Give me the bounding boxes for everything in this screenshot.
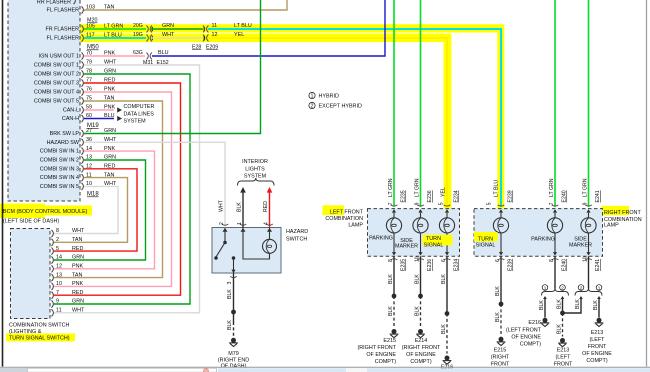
svg-text:WHT: WHT [219, 199, 225, 212]
svg-text:1: 1 [237, 222, 243, 225]
svg-text:COMBI SW IN 2: COMBI SW IN 2 [40, 158, 79, 164]
svg-text:INTERIOR: INTERIOR [242, 159, 268, 165]
hazard switch pin 1 [240, 224, 247, 225]
svg-text:(LEFT FRONT: (LEFT FRONT [506, 328, 542, 334]
svg-text:LT GRN: LT GRN [583, 178, 589, 197]
svg-text:GRN: GRN [162, 23, 174, 29]
svg-text:COMBI SW IN 1: COMBI SW IN 1 [40, 149, 79, 155]
bottom logo dot [204, 368, 209, 372]
wire BLK branch 1 side marker to ground E213 [597, 296, 601, 299]
combination switch pin 10 PNK [52, 283, 54, 290]
svg-text:OF ENGINE: OF ENGINE [366, 352, 396, 358]
highlight FR FLASHER / LT BLU wire row [80, 24, 504, 32]
hazard switch pin 4 [266, 224, 273, 225]
svg-text:7: 7 [56, 290, 59, 296]
highlight LT BLU turn signal vertical wire [497, 33, 504, 209]
svg-text:LAMP: LAMP [348, 222, 363, 228]
connector 63G / M31 / E152 [147, 53, 149, 60]
wire WHT HAZARD SW to hazard switch pin 2 [84, 142, 225, 227]
wire BLK left turn signal to ground E216 [446, 256, 448, 313]
svg-text:2: 2 [56, 237, 59, 243]
svg-text:COMBI SW OUT 4: COMBI SW OUT 4 [34, 90, 79, 96]
combination switch pin 5 RED [52, 248, 54, 255]
combination switch pin 9 GRN [52, 300, 54, 307]
svg-text:TURN: TURN [426, 236, 441, 242]
bottom left gray corner [0, 368, 27, 372]
svg-text:13: 13 [56, 272, 62, 278]
svg-text:IGN USM OUT 1: IGN USM OUT 1 [39, 54, 79, 60]
svg-text:BLK: BLK [593, 300, 599, 310]
svg-text:BLK: BLK [237, 202, 243, 212]
svg-text:RED: RED [72, 290, 83, 296]
combination switch pin 11 WHT [52, 309, 54, 316]
left page border [2, 0, 4, 367]
svg-text:LT GRN: LT GRN [415, 178, 421, 197]
svg-text:COMBI SW OUT 2: COMBI SW OUT 2 [34, 72, 79, 78]
svg-text:COMPT): COMPT) [410, 359, 431, 365]
svg-text:E215: E215 [494, 348, 507, 354]
combination switch pin 14 GRN [52, 256, 54, 263]
svg-text:63G: 63G [133, 50, 143, 56]
hazard switch contact [224, 228, 226, 242]
svg-text:HAZARD SW: HAZARD SW [47, 140, 80, 146]
combination switch pin 7 RED [52, 292, 54, 299]
svg-text:OF ENGINE: OF ENGINE [511, 335, 541, 341]
svg-text:SWITCH: SWITCH [286, 237, 307, 243]
svg-text:BLK: BLK [441, 324, 447, 334]
wire GRN 13 to comb sw 14 [54, 160, 146, 260]
svg-text:9: 9 [56, 299, 59, 305]
svg-text:PNK: PNK [72, 281, 83, 287]
svg-text:5: 5 [439, 202, 445, 205]
svg-text:E235: E235 [401, 259, 407, 271]
svg-text:1: 1 [311, 93, 314, 99]
wire BLK left parking to ground E215 [393, 256, 395, 296]
wire TAN FL FLASHER pin 103 [84, 0, 287, 10]
svg-text:3: 3 [227, 282, 233, 285]
svg-text:E241: E241 [595, 259, 601, 271]
viewport bottom border [0, 366, 650, 368]
svg-text:6: 6 [441, 259, 447, 262]
svg-text:E216: E216 [528, 320, 541, 326]
svg-text:4: 4 [263, 222, 269, 225]
svg-text:COMBINATION SWITCH: COMBINATION SWITCH [9, 323, 69, 329]
svg-text:2: 2 [561, 285, 564, 290]
svg-text:BLK: BLK [415, 306, 421, 316]
svg-text:BLK: BLK [441, 274, 447, 284]
note circled 2 side marker [578, 285, 584, 291]
highlight TURN SIGNAL label left lamp [423, 235, 453, 246]
svg-text:BLK: BLK [388, 274, 394, 284]
wire RED 77 to comb sw 7 [54, 83, 181, 295]
wire PNK 76 to comb sw 10 [54, 92, 172, 286]
svg-text:E239: E239 [508, 190, 514, 202]
svg-text:HYBRID: HYBRID [319, 94, 339, 100]
wire BLU CAN-H with arrow [84, 118, 114, 120]
note 1 hybrid [309, 92, 315, 98]
svg-text:PARKING: PARKING [369, 236, 393, 242]
svg-text:COMPUTER: COMPUTER [124, 104, 155, 110]
svg-text:(LEFT SIDE OF DASH): (LEFT SIDE OF DASH) [3, 219, 59, 225]
svg-text:FR FLASHER: FR FLASHER [45, 27, 79, 33]
highlight RIGHT FRONT label [602, 206, 630, 215]
svg-text:(LEFT: (LEFT [556, 355, 572, 361]
svg-text:E240: E240 [562, 190, 568, 202]
svg-text:E240: E240 [562, 259, 568, 271]
ground M79 [231, 338, 236, 343]
svg-text:WHT: WHT [162, 32, 175, 38]
svg-text:GRN: GRN [72, 299, 84, 305]
svg-text:1: 1 [544, 285, 547, 290]
svg-text:MARKER: MARKER [395, 243, 418, 249]
bottom blue band 1 [218, 368, 650, 372]
svg-text:YEL: YEL [441, 187, 447, 197]
svg-text:EXCEPT HYBRID: EXCEPT HYBRID [319, 104, 362, 110]
connector E28/E209 brackets [203, 26, 205, 33]
svg-text:11: 11 [56, 308, 62, 314]
svg-text:BLK: BLK [557, 299, 563, 309]
svg-text:BCM (BODY CONTROL MODULE): BCM (BODY CONTROL MODULE) [3, 209, 88, 215]
combination switch pin 8 WHT [52, 230, 54, 237]
svg-text:COMBI SW OUT 1: COMBI SW OUT 1 [34, 63, 79, 69]
bottom white panel [28, 368, 217, 372]
svg-text:2: 2 [580, 285, 583, 290]
svg-text:COMPT): COMPT) [375, 359, 396, 365]
connector 19G [147, 35, 149, 42]
svg-text:19G: 19G [133, 32, 143, 38]
wire BLK branch 1 to ground E216 [543, 296, 547, 299]
combination switch box [11, 229, 51, 319]
svg-text:E28: E28 [192, 44, 201, 50]
svg-text:BLK: BLK [415, 274, 421, 284]
svg-text:FRONT: FRONT [554, 362, 573, 368]
svg-text:12: 12 [56, 264, 62, 270]
svg-text:LT GRN: LT GRN [549, 178, 555, 197]
svg-text:BLK: BLK [227, 289, 233, 299]
note 2 except hybrid [309, 102, 315, 108]
svg-text:COMBINATION: COMBINATION [325, 216, 363, 222]
svg-text:WHT: WHT [72, 308, 85, 314]
svg-text:E215: E215 [383, 338, 396, 344]
svg-text:E234: E234 [454, 259, 460, 271]
svg-text:COMBI SW IN 5: COMBI SW IN 5 [40, 184, 79, 190]
svg-text:8: 8 [549, 259, 555, 262]
svg-text:BLK: BLK [495, 286, 501, 296]
wire LT BLU pin 11 to right lamp turn signal [208, 29, 501, 207]
svg-text:M19: M19 [87, 123, 99, 129]
svg-text:(LIGHTING &: (LIGHTING & [9, 329, 42, 335]
wire BLU from 63G up off page [152, 0, 385, 56]
svg-text:LEFT FRONT: LEFT FRONT [330, 210, 364, 216]
svg-text:SIGNAL: SIGNAL [476, 242, 496, 248]
wire GRN BRK SW LP up off page [84, 0, 261, 134]
hazard switch box [212, 228, 281, 274]
svg-text:6: 6 [495, 259, 501, 262]
svg-text:COMBI SW IN 4: COMBI SW IN 4 [40, 175, 79, 181]
svg-text:DATA LINES: DATA LINES [124, 111, 155, 117]
wire BLK hazard pin 1 to interior lights [240, 187, 246, 193]
combination switch pin 2 TAN [52, 239, 54, 246]
svg-text:8: 8 [388, 259, 394, 262]
svg-text:COMPT): COMPT) [520, 342, 541, 348]
svg-text:SYSTEM: SYSTEM [124, 119, 147, 125]
svg-text:E235: E235 [401, 190, 407, 202]
wire LT GRN to left lamp side marker [420, 0, 422, 207]
svg-text:2: 2 [311, 103, 314, 109]
wire RED 12 to comb sw 5 [54, 169, 137, 251]
wire right parking split [554, 256, 556, 289]
note circled 2 parking [560, 285, 566, 291]
svg-text:YEL: YEL [234, 32, 244, 38]
wire FR FLASHER LT GRN segment [84, 28, 146, 30]
right front combination lamp box [474, 209, 603, 257]
combination switch pin 13 TAN [52, 274, 54, 281]
svg-text:OF ENGINE: OF ENGINE [406, 352, 436, 358]
BCM (body control module) box [8, 0, 80, 201]
svg-text:BLK: BLK [539, 300, 545, 310]
interior lights brace [238, 178, 275, 186]
wire PNK CAN-L with arrow [84, 109, 114, 111]
left front combination lamp box [368, 209, 460, 257]
svg-text:FL FLASHER: FL FLASHER [47, 36, 80, 42]
wire TAN 11 to comb sw 2 [54, 178, 128, 243]
svg-text:E234: E234 [454, 190, 460, 202]
svg-text:E239: E239 [508, 259, 514, 271]
svg-text:HAZARD: HAZARD [286, 229, 308, 235]
svg-text:E209: E209 [206, 44, 218, 50]
svg-text:COMBI SW IN 3: COMBI SW IN 3 [40, 166, 79, 172]
wire PNK IGN USM OUT 1 [84, 55, 145, 57]
svg-text:TAN: TAN [72, 237, 82, 243]
combination switch pin 12 PNK [52, 265, 54, 272]
svg-text:E241: E241 [595, 190, 601, 202]
svg-text:SIGNAL: SIGNAL [424, 242, 444, 248]
svg-text:FRONT: FRONT [491, 362, 510, 368]
highlight FL FLASHER / YEL wire row [80, 34, 451, 43]
svg-text:RED: RED [263, 201, 269, 212]
svg-text:WHT: WHT [72, 228, 85, 234]
svg-text:TAN: TAN [72, 272, 82, 278]
svg-text:14: 14 [56, 255, 62, 261]
svg-text:RR FLASHER: RR FLASHER [37, 0, 71, 6]
svg-text:2: 2 [219, 222, 225, 225]
svg-text:LAMP: LAMP [604, 223, 619, 229]
svg-text:LT BLU: LT BLU [494, 180, 500, 197]
svg-text:TURN: TURN [478, 236, 493, 242]
svg-text:5: 5 [487, 202, 493, 205]
bottom blue band white gap [346, 368, 367, 372]
connector 20G [147, 26, 149, 33]
svg-text:COMBI SW OUT 3: COMBI SW OUT 3 [34, 81, 79, 87]
svg-text:8: 8 [56, 228, 59, 234]
svg-text:COMBI SW OUT 5: COMBI SW OUT 5 [34, 99, 79, 105]
svg-text:E213: E213 [591, 330, 604, 336]
svg-text:CAN-H: CAN-H [62, 116, 79, 122]
hazard switch pin 3 wire to ground M79 [231, 270, 235, 273]
hazard switch lamp [263, 239, 277, 253]
svg-text:BLK: BLK [575, 299, 581, 309]
wire WHT segment [151, 36, 153, 40]
svg-text:5: 5 [56, 246, 59, 252]
wire BLK right turn signal to ground E215 [500, 256, 502, 304]
wire RED hazard pin 4 to interior lights [267, 187, 273, 193]
svg-text:E236: E236 [427, 259, 433, 271]
svg-text:FL FLASHER: FL FLASHER [47, 8, 80, 14]
wire TAN 75 to comb sw 13 [54, 101, 163, 278]
wire WHT 10 to comb sw 8 [54, 186, 118, 233]
lamp bulb turn signal R [500, 213, 502, 218]
wire BLK branch 2 to junction [561, 296, 565, 299]
svg-text:BLU: BLU [158, 50, 169, 56]
svg-text:RED: RED [72, 246, 83, 252]
lamp bulb parking [393, 213, 395, 218]
svg-text:BLK: BLK [388, 306, 394, 316]
svg-text:(RIGHT: (RIGHT [491, 355, 510, 361]
wire YEL pin 12 to left lamp turn signal [208, 38, 447, 207]
svg-text:LT GRN: LT GRN [388, 178, 394, 197]
highlight YEL turn signal vertical wire [444, 42, 452, 209]
lamp bulb side marker R [588, 213, 590, 218]
svg-text:(RIGHT FRONT: (RIGHT FRONT [357, 345, 396, 351]
svg-text:TURN SIGNAL SWITCH): TURN SIGNAL SWITCH) [9, 336, 70, 342]
svg-text:MARKER: MARKER [569, 243, 592, 249]
svg-text:M79: M79 [228, 351, 239, 357]
highlight TURN SIGNAL SWITCH label [6, 333, 75, 341]
svg-text:10: 10 [583, 256, 589, 262]
lamp bulb parking R [554, 213, 556, 218]
svg-text:11: 11 [212, 23, 218, 29]
svg-text:10: 10 [56, 281, 62, 287]
svg-text:FRONT: FRONT [588, 344, 607, 350]
svg-text:CAN-L: CAN-L [63, 108, 79, 114]
wire FL FLASHER LT BLU segment [84, 37, 146, 39]
note circled 1 parking [542, 285, 548, 291]
svg-text:(RIGHT FRONT: (RIGHT FRONT [402, 345, 441, 351]
wire LT GRN to left lamp parking [393, 0, 395, 207]
note circled 1 side marker [596, 285, 602, 291]
wire right side marker split [588, 256, 590, 289]
svg-text:OF ENGINE: OF ENGINE [582, 351, 612, 357]
svg-text:E236: E236 [427, 190, 433, 202]
hazard switch pin 2 [222, 224, 229, 225]
svg-text:PNK: PNK [72, 264, 83, 270]
svg-text:BLK: BLK [227, 320, 233, 330]
svg-text:10: 10 [415, 256, 421, 262]
wire LT GRN to right lamp side marker [588, 0, 590, 207]
wire BLK branch 2 side marker to junction [579, 296, 583, 299]
highlight TURN label right lamp [474, 232, 498, 242]
svg-text:M18: M18 [87, 192, 99, 198]
svg-text:COMPT): COMPT) [586, 358, 607, 364]
svg-text:LIGHTS: LIGHTS [245, 167, 265, 173]
svg-text:LT BLU: LT BLU [234, 23, 252, 29]
lamp bulb turn signal [446, 213, 448, 218]
svg-text:E214: E214 [415, 338, 428, 344]
wire LT GRN to right lamp parking [554, 0, 556, 207]
lamp bulb side marker [420, 213, 422, 218]
svg-text:PARKING: PARKING [531, 236, 555, 242]
wire BLK left side marker to ground E214 [420, 256, 422, 296]
svg-text:BLK: BLK [495, 312, 501, 322]
svg-text:RIGHT FRONT: RIGHT FRONT [604, 210, 641, 216]
svg-text:GRN: GRN [72, 255, 84, 261]
wire GRN segment to E28 [151, 27, 153, 31]
wire WHT 79 to comb sw 11 [54, 65, 200, 313]
svg-text:M20: M20 [87, 18, 98, 24]
wire PNK 14 to comb sw 12 [54, 151, 155, 269]
highlight LEFT FRONT label [323, 205, 345, 215]
wire GRN 78 to comb sw 9 [54, 74, 190, 304]
highlight BCM label [0, 204, 45, 219]
svg-text:E213: E213 [557, 348, 570, 354]
svg-text:BLK: BLK [557, 324, 563, 334]
svg-text:M50: M50 [87, 45, 99, 51]
svg-text:1: 1 [598, 285, 601, 290]
svg-text:12: 12 [212, 32, 218, 38]
svg-text:20G: 20G [133, 23, 143, 29]
svg-text:BRK SW LP: BRK SW LP [50, 131, 80, 137]
svg-text:(LEFT: (LEFT [590, 337, 606, 343]
right page border [646, 0, 648, 367]
